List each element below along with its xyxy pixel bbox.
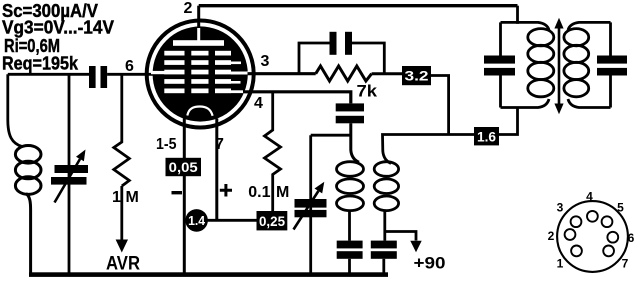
wire 3.2 box to corner down [431, 76, 449, 135]
svg-text:4: 4 [586, 190, 593, 204]
socket pin 1 [571, 246, 582, 257]
tube V1 internal lead lines [151, 62, 250, 94]
trimmer capacitor CV1 plates [55, 165, 89, 173]
socket outline circle [557, 201, 628, 272]
tube V1 anode plate [173, 40, 224, 46]
resistor R3 0.1M [265, 92, 281, 211]
wire pin 4 horizontal [244, 92, 351, 104]
IF transformer T2 primary outline [501, 22, 550, 107]
wire top rail drop to IF transformer [516, 6, 519, 24]
wire oscillator trimmer vertical [309, 135, 312, 274]
tag 3.2 value box [402, 66, 431, 85]
tube V1 anode lead [197, 28, 200, 41]
socket pin 2 [565, 229, 576, 240]
transformer T1 secondary coil [374, 162, 398, 211]
wire pin 3 to resistor [248, 72, 316, 75]
svg-text:3: 3 [261, 53, 270, 70]
IF transformer T2 primary coil loops [528, 29, 554, 97]
IF transformer T2 secondary coil loops [564, 29, 589, 97]
capacitor C3 oscillator grid [336, 103, 364, 111]
wire trimmer to coil stem link [311, 134, 351, 137]
wire T1 secondary top lead to 1.6 line [383, 135, 475, 164]
capacitor C4 to ground [337, 241, 363, 249]
capacitor C5 to ground [371, 241, 397, 249]
tag 1.4 value circle [185, 209, 208, 232]
wire pin 2 anode lead up [197, 6, 200, 28]
wire +90 branch [385, 232, 416, 241]
capacitor C7 secondary tuning [597, 56, 627, 64]
wire T1 primary bottom lead [348, 211, 351, 241]
svg-text:M: M [126, 189, 139, 206]
arrow +90 supply [410, 241, 421, 253]
trimmer capacitor CV2 plates [295, 199, 327, 208]
capacitor C2 across 7k [330, 32, 337, 55]
wire C4 to bus [348, 259, 351, 274]
wire T1 secondary bottom lead [383, 211, 386, 241]
tube V1 inner black disc [153, 26, 248, 121]
svg-text:3: 3 [557, 201, 564, 215]
svg-text:M: M [276, 184, 289, 201]
arrow coupling adjust [558, 26, 561, 106]
socket pin 5 [602, 216, 613, 227]
wire pin 1-5 down to bus [183, 119, 186, 275]
resistor R2 7k [316, 66, 372, 81]
socket pin 3 [571, 216, 582, 227]
svg-text:2: 2 [184, 0, 193, 17]
svg-text:6: 6 [125, 58, 134, 75]
svg-text:1: 1 [112, 189, 121, 206]
svg-text:AVR: AVR [106, 254, 140, 275]
svg-text:0,05: 0,05 [169, 159, 198, 175]
tube V1 filament arc [187, 107, 212, 116]
tube V1 envelope [147, 21, 254, 128]
arrow AVR [120, 186, 123, 240]
svg-text:Vg3=0V...-14V: Vg3=0V...-14V [2, 18, 114, 38]
svg-text:0.1: 0.1 [248, 184, 270, 201]
wire bypass branch up left [299, 43, 330, 74]
wire coil bottom to ground bus [26, 194, 31, 275]
svg-text:1: 1 [557, 257, 564, 271]
svg-text:+90: +90 [414, 254, 446, 273]
svg-text:4: 4 [254, 95, 263, 112]
ground bus [29, 272, 388, 277]
wire 1.6 box to IF transformer [499, 108, 518, 135]
tube V1 grid dashes [164, 51, 231, 93]
wire anode top rail [199, 4, 518, 7]
wire bypass branch right down [352, 43, 384, 74]
svg-text:7: 7 [622, 257, 629, 271]
svg-text:7k: 7k [357, 83, 378, 101]
inductor L1 antenna coil [15, 146, 41, 195]
svg-text:1.6: 1.6 [477, 129, 496, 145]
socket pin 6 [607, 232, 618, 243]
resistor R1 1M [114, 74, 130, 186]
svg-text:3.2: 3.2 [405, 68, 429, 84]
socket pin 7 [603, 246, 614, 257]
wire resistor to 3.2 box [372, 72, 403, 75]
tag 1.6 value box [474, 127, 499, 145]
transformer T1 primary coil [337, 162, 364, 211]
tag 0.25 value box [257, 211, 288, 230]
socket pin 4 [587, 211, 598, 222]
svg-text:1.4: 1.4 [188, 213, 206, 228]
wire grid cap stem to coil [351, 123, 359, 162]
capacitor C6 primary tuning [484, 56, 515, 64]
trimmer CV2 arrow [294, 191, 319, 230]
plus sign filament [220, 184, 232, 197]
wire trimmer branch vertical [68, 74, 71, 274]
svg-text:Req=195k: Req=195k [2, 54, 79, 74]
wire C5 to bus [382, 259, 385, 274]
minus sign filament [172, 191, 183, 194]
wire left vertical drop to coil [8, 74, 22, 146]
wire pin 7 down [215, 119, 218, 221]
svg-text:6: 6 [628, 231, 635, 245]
wire capacitor to tube pin 6 [107, 73, 153, 76]
svg-text:1-5: 1-5 [156, 136, 177, 153]
wire input left horizontal to capacitor [8, 73, 89, 76]
svg-text:2: 2 [548, 229, 555, 243]
capacitor C1 input coupling [89, 66, 96, 88]
trimmer CV1 arrow [55, 159, 81, 203]
tag 0.05 value box [166, 158, 202, 176]
IF transformer T2 secondary outline [568, 22, 611, 107]
svg-text:5: 5 [617, 201, 624, 215]
svg-text:0,25: 0,25 [259, 213, 285, 229]
wire 1.4 circle to 0.25 box [200, 219, 257, 222]
